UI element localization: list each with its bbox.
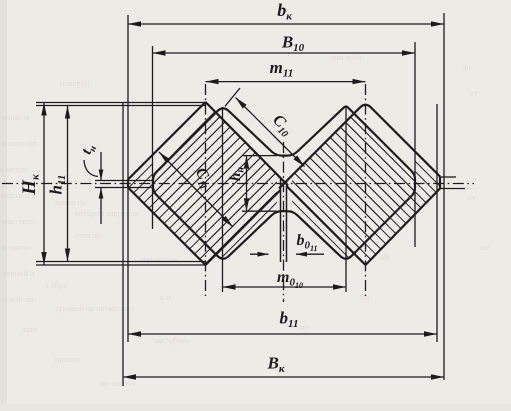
dimension h_11	[67, 106, 69, 262]
svg-text:ой: ой	[380, 252, 389, 262]
h_11 bottom extension line	[36, 261, 206, 263]
h_11 top extension line	[36, 105, 206, 107]
svg-text:ни: ни	[462, 62, 472, 72]
svg-text:ки зацепл: ки зацепл	[100, 378, 136, 388]
wheel 11 upper-right edge of left rib	[206, 102, 289, 186]
svg-text:ания па: ания па	[2, 112, 29, 122]
centerline through left apex (m11 extension)	[205, 84, 207, 296]
horizontal centerline	[2, 183, 474, 185]
white band upper-left slope	[153, 101, 222, 174]
vertical centerline of groove	[283, 142, 285, 302]
t_n upper extension line	[95, 180, 153, 182]
svg-text:ия: ия	[300, 322, 309, 332]
dimension B_10	[153, 52, 416, 54]
dimension t_n upper arrow	[100, 152, 102, 181]
wheel 11 lower-right edge	[366, 189, 441, 266]
dimension m_11	[206, 81, 366, 83]
hatched rim section, left half	[128, 102, 415, 265]
m_0_10 extension line right	[345, 107, 347, 292]
outer face extension line right (b_k, B_k)	[443, 13, 445, 380]
B_10 extension line right	[414, 42, 416, 247]
svg-text:в месте: в месте	[0, 164, 27, 174]
white band upper-right slope of left rib	[206, 101, 281, 177]
wheel 11 right face flat	[439, 177, 441, 189]
c_10 extension tick	[225, 88, 240, 106]
dimension t_n lower arrow	[100, 188, 102, 225]
centerline through right apex (m11 extension)	[365, 84, 367, 296]
svg-text:лярной п: лярной п	[2, 268, 35, 278]
svg-text:ковой ли: ковой ли	[2, 294, 34, 304]
b_11 extension line right	[436, 104, 438, 342]
wheel 11 upper edges of right rib (rounded apex)	[279, 105, 440, 189]
svg-text:к п: к п	[160, 292, 171, 302]
wheel 11 lower-left edge	[128, 188, 206, 266]
dimension h_n	[246, 156, 248, 212]
right face flat extension upper	[440, 176, 456, 178]
dimension C_11 (cone face)	[159, 152, 233, 227]
B_10 extension line left	[152, 46, 154, 229]
svg-text:з обра: з обра	[45, 280, 67, 290]
wheel 10 profile outline	[153, 107, 415, 259]
svg-text:ст: ст	[470, 88, 478, 98]
dimension c_10 (cone face)	[236, 98, 305, 167]
t_n leader hook	[84, 160, 98, 177]
svg-text:провер: провер	[55, 354, 80, 364]
H_k bottom extension line	[36, 264, 206, 266]
white core between groove flats	[277, 156, 292, 210]
svg-text:котором закрепля: котором закрепля	[75, 208, 139, 218]
right face flat extension lower	[440, 188, 465, 190]
svg-text:вание на: вание на	[55, 197, 86, 207]
svg-text:и выпук: и выпук	[2, 242, 32, 252]
svg-text:верхности: верхности	[140, 254, 178, 264]
wheel 11 lower-right edge of left rib	[206, 190, 281, 265]
svg-text:ет: ет	[468, 192, 476, 202]
dimension b_k	[128, 23, 444, 25]
H_k top extension line	[36, 102, 206, 104]
outer face extension line left (B_k)	[122, 103, 124, 387]
root land wall left	[280, 177, 282, 262]
wheel 11 upper-left edge	[128, 102, 206, 180]
wheel 11 left face flat	[127, 180, 129, 188]
h_n top extension line	[242, 155, 277, 157]
dimension b_11	[128, 333, 437, 335]
svg-text:контакте: контакте	[2, 216, 34, 226]
t_n lower extension line	[95, 187, 153, 189]
svg-text:ется по: ется по	[75, 230, 101, 240]
svg-text:ме: ме	[480, 242, 489, 252]
dimension B_k	[123, 376, 444, 378]
svg-text:акта: акта	[22, 324, 38, 334]
wheel 11 lower-left edge of right rib	[287, 186, 366, 265]
dimension b_0_11 left arrow	[250, 253, 269, 255]
dimension H_k	[43, 103, 45, 266]
dimension m_0_10	[223, 286, 347, 288]
svg-text:на зубьях: на зубьях	[155, 335, 190, 345]
hatched rim section, right half	[153, 102, 440, 265]
face extension line left (b_k, b_11)	[127, 15, 129, 342]
h_n bottom extension line	[242, 210, 277, 212]
svg-text:и контакт: и контакт	[2, 138, 37, 148]
svg-text:ом: ом	[360, 292, 370, 302]
root land wall right	[286, 181, 288, 262]
svg-text:поверхн: поверхн	[60, 78, 90, 88]
white band upper-right outer slope	[348, 101, 416, 175]
white band upper-left slope of right rib	[287, 101, 366, 181]
dimension b_0_11 right arrow	[296, 253, 324, 255]
m_0_10 extension line left	[222, 107, 224, 292]
